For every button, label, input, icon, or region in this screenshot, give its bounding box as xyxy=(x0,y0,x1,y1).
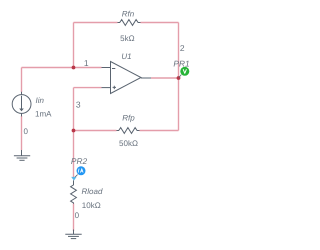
resistor Rfn xyxy=(118,20,141,26)
wire: pin stub noninverting input xyxy=(102,87,111,89)
svg-text:5kΩ: 5kΩ xyxy=(120,34,134,43)
node A junction dot xyxy=(72,66,76,70)
svg-text:Rload: Rload xyxy=(82,187,103,196)
wire: vertical from node B down to Rload xyxy=(73,131,75,178)
wire: op-amp output stub xyxy=(141,77,151,79)
svg-text:Rfn: Rfn xyxy=(122,10,135,19)
resistor Rload xyxy=(71,180,77,203)
svg-text:50kΩ: 50kΩ xyxy=(119,139,138,148)
wire: output horizontal xyxy=(151,77,179,79)
wire: horizontal right of Rfp xyxy=(140,130,179,132)
svg-text:0: 0 xyxy=(75,211,80,220)
current source arrow xyxy=(21,96,23,109)
current source Iin xyxy=(12,95,31,114)
wire: horizontal left of Rfp xyxy=(74,130,117,132)
wire: vertical from noninverting input to node B xyxy=(73,88,75,131)
wire: pin stub inverting input xyxy=(102,67,111,69)
probe PR2 xyxy=(77,166,86,175)
probe PR1 xyxy=(180,67,189,76)
wire: feedback vertical up from node A xyxy=(73,23,75,68)
wire: current source top vertical xyxy=(21,68,23,93)
svg-text:1: 1 xyxy=(84,58,89,68)
wire: vertical Rload to ground xyxy=(73,204,75,232)
probe PR2 current direction arrow xyxy=(71,177,76,181)
node B junction dot xyxy=(72,129,76,133)
svg-text:Iin: Iin xyxy=(36,96,45,105)
wire: noninverting input horizontal xyxy=(74,87,102,89)
current source pin stubs xyxy=(21,92,23,117)
ground (right) xyxy=(65,230,81,239)
svg-text:Rfp: Rfp xyxy=(122,114,135,123)
ground (left) xyxy=(14,150,30,160)
svg-text:2: 2 xyxy=(180,43,185,53)
op-amp minus sign xyxy=(112,68,115,70)
probe PR1 pointer xyxy=(179,75,182,78)
resistor Rfp xyxy=(117,128,140,134)
op-amp plus sign xyxy=(113,86,116,89)
svg-text:PR1: PR1 xyxy=(173,58,189,68)
op-amp U1 xyxy=(111,62,142,94)
wire: current source bottom to ground xyxy=(21,116,23,150)
svg-text:U1: U1 xyxy=(121,52,131,61)
svg-text:3: 3 xyxy=(76,100,81,110)
probe PR2 pointer xyxy=(75,175,78,178)
svg-text:1mA: 1mA xyxy=(35,110,52,119)
wire: horizontal into op-amp inverting input xyxy=(22,67,102,69)
svg-text:PR2: PR2 xyxy=(71,156,88,166)
output node junction dot xyxy=(177,76,181,80)
wire: right vertical xyxy=(178,23,180,131)
svg-text:10kΩ: 10kΩ xyxy=(82,201,101,210)
svg-text:0: 0 xyxy=(24,127,29,136)
wire: top horizontal right of Rfn xyxy=(141,22,179,24)
wire: top horizontal left of Rfn xyxy=(74,22,118,24)
